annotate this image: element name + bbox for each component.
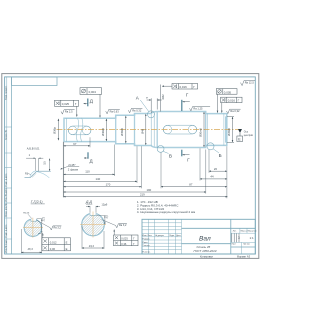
- G-G depth dim right: [41, 219, 43, 233]
- svg-text:34,4: 34,4: [89, 244, 95, 248]
- groove detail width dim: [26, 158, 43, 171]
- cut G bottom: [181, 150, 183, 157]
- svg-text:44: 44: [210, 175, 214, 179]
- step line S4/S5: [205, 112, 207, 148]
- svg-text:31,5: 31,5: [43, 216, 45, 221]
- svg-text:Ra 3,2: Ra 3,2: [119, 224, 127, 227]
- chamfer note 2x45: [68, 163, 79, 172]
- top-left reference box: [12, 77, 57, 86]
- svg-text:Ra 12,5: Ra 12,5: [245, 80, 255, 84]
- FCF cylindricity S5: [216, 89, 237, 95]
- svg-text:Пров.: Пров.: [142, 242, 148, 244]
- svg-text:0,012: 0,012: [50, 240, 57, 244]
- groove detail depth dim: [49, 159, 51, 171]
- FCF runout S1: [55, 100, 79, 106]
- FCF G-G: [42, 238, 71, 251]
- svg-text:87: 87: [189, 183, 193, 187]
- svg-text:20: 20: [214, 167, 218, 171]
- step line S4 left: [156, 112, 158, 148]
- svg-text:Ra 1,25: Ra 1,25: [193, 106, 203, 110]
- sheet outer grey border: [2, 74, 259, 259]
- svg-text:4. Неуказанные радиусы скругле: 4. Неуказанные радиусы скруглений 2 мм: [137, 210, 195, 214]
- FCF cylindricity S1: [80, 88, 102, 95]
- svg-text:28,3: 28,3: [27, 247, 34, 251]
- keyway slot on S1: [68, 126, 91, 135]
- cut D bottom: [87, 152, 89, 158]
- svg-text:Подп. и дата: Подп. и дата: [5, 173, 7, 187]
- datum circle A: [148, 111, 155, 118]
- svg-text:Д-Д: Д-Д: [85, 200, 93, 204]
- svg-text:Ø36js: Ø36js: [53, 126, 57, 134]
- svg-text:140: 140: [96, 177, 101, 181]
- svg-text:ГОСТ 1050-2013: ГОСТ 1050-2013: [194, 249, 217, 253]
- svg-text:Ra 0,32: Ra 0,32: [230, 109, 240, 113]
- S1 chamfer line: [65, 118, 67, 141]
- roughness Ra2,5 over S1: [61, 110, 75, 114]
- dim 20: [209, 170, 227, 172]
- svg-text:А,Б,В 0,01: А,Б,В 0,01: [27, 146, 40, 150]
- svg-text:Ra 3,2: Ra 3,2: [54, 226, 62, 229]
- svg-text:Лит.: Лит.: [233, 231, 237, 233]
- svg-text:0,005: 0,005: [224, 90, 232, 94]
- relief groove: [151, 113, 154, 147]
- D-D keyway width dim: [86, 206, 100, 213]
- dim 219 overall: [64, 191, 206, 193]
- inner teal frame: [5, 77, 256, 254]
- svg-text:Инв. № дубл.: Инв. № дубл.: [4, 188, 7, 202]
- D-D diameter dim below: [81, 226, 83, 249]
- svg-text:R0,26: R0,26: [23, 213, 30, 215]
- svg-text:12js9: 12js9: [102, 203, 108, 206]
- svg-text:0,06: 0,06: [50, 247, 56, 251]
- title block signature columns: [142, 219, 182, 254]
- svg-text:Перв. примен.: Перв. примен.: [5, 85, 7, 100]
- groove detail surface lines: [25, 171, 51, 178]
- diameter dim shaft right end: [227, 116, 234, 142]
- FCF D-D: [114, 235, 139, 246]
- svg-text:0,016: 0,016: [180, 85, 188, 89]
- svg-text:Взам. инв.№: Взам. инв.№: [4, 203, 7, 217]
- dim 219b: [64, 196, 228, 198]
- svg-text:Ø50m6: Ø50m6: [198, 128, 202, 137]
- roughness Ra0,32 over S5: [227, 109, 241, 113]
- svg-text:110: 110: [85, 170, 90, 174]
- general roughness top-right: [241, 81, 256, 86]
- left margin column inner line: [11, 77, 13, 254]
- svg-text:Разраб.: Разраб.: [142, 239, 150, 241]
- S5 end face thick line: [225, 116, 227, 142]
- title block outline: [142, 219, 257, 258]
- D-D roughness leader: [102, 220, 116, 226]
- section D-D circle: [80, 212, 106, 238]
- title block small header texts: [142, 231, 257, 257]
- diameter dim S2: [125, 116, 127, 143]
- svg-text:Ø35k6: Ø35k6: [227, 128, 231, 136]
- svg-text:центров: центров: [244, 134, 254, 137]
- svg-text:Д: Д: [90, 159, 93, 164]
- dim 140: [64, 180, 138, 182]
- datum circle B (right): [207, 143, 214, 150]
- svg-text:2 фаски: 2 фаски: [68, 167, 79, 171]
- dim 44: [200, 178, 227, 180]
- Lit/Massa/Masshtab cells: [232, 233, 239, 242]
- svg-text:Справ. №: Справ. №: [4, 129, 7, 140]
- svg-text:Ø45k6: Ø45k6: [120, 128, 124, 136]
- svg-text:Г-Г(2:1): Г-Г(2:1): [31, 200, 43, 204]
- diameter dim S1: [105, 119, 107, 141]
- svg-text:Масса: Масса: [241, 231, 248, 233]
- svg-text:Н.контр.: Н.контр.: [142, 251, 150, 253]
- svg-text:Инв.№ подл.: Инв.№ подл.: [4, 239, 7, 252]
- svg-text:Ra 2,5: Ra 2,5: [65, 110, 73, 114]
- svg-text:Лист: Лист: [232, 244, 237, 246]
- FCF runout groove: [172, 84, 198, 90]
- cut D top: [87, 99, 89, 107]
- step line S2/S3: [134, 114, 136, 146]
- shaft silhouette: [64, 112, 227, 148]
- svg-text:Е: Е: [66, 247, 68, 251]
- datum circle V (middle): [157, 146, 164, 153]
- extension lines for linear dims: [90, 137, 227, 198]
- svg-text:190: 190: [147, 188, 152, 192]
- svg-text:Изм. Лист: Изм. Лист: [142, 235, 152, 237]
- keyway slot on S4: [163, 125, 197, 134]
- svg-text:1:1: 1:1: [250, 236, 255, 240]
- FCF runout S5: [221, 97, 242, 102]
- cut G top: [181, 100, 183, 111]
- break wavy lines on S1: [76, 118, 78, 142]
- svg-text:170: 170: [106, 183, 111, 187]
- svg-text:Ra 0,32: Ra 0,32: [132, 108, 142, 112]
- S5 chamfer line: [223, 114, 225, 146]
- G-G diameter dim below: [20, 229, 22, 253]
- roughness Ra0,63 over S2: [106, 109, 120, 113]
- svg-text:0,016: 0,016: [228, 99, 236, 103]
- step line S1/S2: [115, 115, 117, 144]
- centerline axis: [57, 129, 242, 131]
- svg-text:Подп. и дата: Подп. и дата: [5, 224, 7, 238]
- svg-text:Ø42: Ø42: [161, 94, 165, 100]
- G-G roughness leader: [37, 221, 50, 228]
- D-D depth dim right: [104, 216, 106, 224]
- svg-text:219: 219: [140, 193, 145, 197]
- center axis datum: [238, 129, 242, 133]
- svg-text:Ø48: Ø48: [140, 128, 144, 134]
- svg-text:Ø40k6: Ø40k6: [101, 128, 105, 136]
- left margin rotated captions: [4, 85, 7, 252]
- technical requirements: [137, 200, 195, 214]
- diameter dim S3: [145, 114, 147, 145]
- svg-text:Вал: Вал: [199, 236, 211, 243]
- svg-text:В: В: [169, 154, 172, 159]
- svg-text:Масштаб: Масштаб: [248, 231, 258, 233]
- svg-text:0,025: 0,025: [121, 237, 128, 241]
- diameter dim S4: [203, 112, 205, 147]
- groove width dim: [147, 98, 162, 113]
- svg-text:Подп.: Подп.: [169, 235, 175, 237]
- roughness Ra1,25 over S4: [190, 107, 211, 111]
- dim 87: [161, 186, 227, 188]
- svg-text:0,025: 0,025: [62, 102, 70, 106]
- svg-text:Т.контр.: Т.контр.: [142, 245, 150, 247]
- svg-text:0,36: 0,36: [121, 242, 127, 246]
- svg-text:0,004: 0,004: [89, 90, 97, 94]
- svg-text:3: 3: [238, 236, 240, 240]
- groove detail hatch wedge: [31, 172, 37, 178]
- svg-text:Формат А3: Формат А3: [237, 255, 251, 259]
- left margin column outer line: [6, 77, 8, 254]
- svg-text:Б: Б: [219, 153, 222, 158]
- left margin cell dividers: [5, 127, 12, 239]
- svg-text:67: 67: [73, 142, 77, 146]
- S5 left chamfer line: [207, 114, 209, 146]
- svg-text:Листов: Листов: [243, 244, 251, 246]
- groove diameter leader: [160, 85, 162, 112]
- diameter dim shaft left end: [57, 119, 59, 140]
- roughness Ra0,32 over S3: [128, 108, 142, 112]
- svg-text:Ra 0,63: Ra 0,63: [110, 109, 120, 113]
- svg-text:№ докум.: № докум.: [155, 234, 165, 237]
- svg-text:Е: Е: [66, 240, 68, 244]
- section G-G circle: [23, 218, 43, 238]
- svg-text:Копировал: Копировал: [200, 255, 213, 259]
- dim 67: [64, 145, 91, 147]
- dim 170: [64, 186, 142, 188]
- title block main dividers: [182, 219, 256, 254]
- dim 110: [64, 173, 115, 175]
- extension line left end (thick grey): [63, 142, 65, 198]
